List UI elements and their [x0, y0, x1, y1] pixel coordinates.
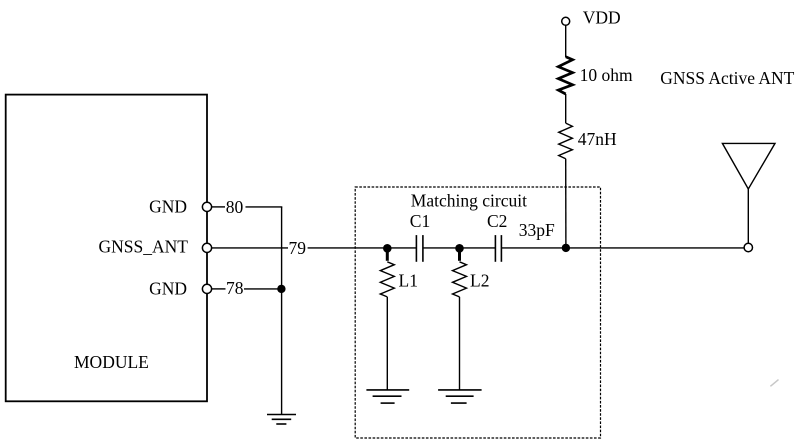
svg-text:GNSS_ANT: GNSS_ANT [99, 237, 189, 257]
wire pin78 to label [212, 288, 226, 290]
svg-text:L2: L2 [470, 271, 489, 291]
VDD terminal circle [562, 17, 570, 25]
svg-text:MODULE: MODULE [74, 352, 149, 372]
svg-text:C2: C2 [487, 211, 507, 231]
pin 78 terminal circle [202, 284, 211, 293]
svg-text:33pF: 33pF [519, 220, 555, 240]
wire C2 to antenna terminal [501, 247, 744, 249]
node junction dot B (L2 tap) [455, 244, 464, 253]
junction dot pin78/gnd bus [277, 285, 285, 293]
svg-text:VDD: VDD [583, 8, 621, 28]
wire pin79 to label 79 [212, 247, 288, 249]
node junction dot A (L1 tap) [383, 244, 392, 253]
ground symbol under L2 [438, 390, 482, 403]
wire label 78 to junction [244, 288, 282, 290]
pin 80 terminal circle [202, 202, 211, 211]
wire label 80 to gnd bus corner [246, 206, 283, 208]
capacitor C2 right plate [500, 235, 502, 262]
inductor L2 zigzag [453, 262, 467, 297]
inductor L1 zigzag [380, 262, 394, 297]
inductor L3 47nH zigzag [559, 123, 573, 159]
wire L2 to ground [459, 297, 461, 390]
module U1 body [6, 95, 207, 402]
pin 79 terminal circle [202, 243, 211, 252]
node junction dot C (bias tee) [562, 244, 570, 252]
svg-text:GNSS Active ANT: GNSS Active ANT [660, 68, 794, 88]
resistor R1 10 ohm zigzag (bold) [558, 57, 572, 94]
capacitor C2 left plate [494, 235, 496, 262]
wire antenna to terminal [747, 189, 749, 243]
svg-text:80: 80 [226, 197, 244, 217]
antenna ANT1 triangle [722, 143, 775, 189]
svg-text:C1: C1 [410, 211, 430, 231]
capacitor C1 left plate [415, 235, 417, 262]
wire gnd bus vertical [281, 207, 283, 415]
capacitor C1 right plate [422, 235, 424, 262]
wire pin80 to label [212, 206, 225, 208]
wire L3 to node C [565, 159, 567, 248]
wire C1 to node B [423, 247, 496, 249]
wire R1 to L3 [565, 94, 567, 123]
svg-text:78: 78 [226, 278, 244, 298]
node A stub to L1 [386, 248, 389, 260]
antenna terminal circle [744, 243, 752, 251]
node B stub to L2 [458, 248, 461, 260]
svg-text:L1: L1 [399, 271, 418, 291]
svg-text:79: 79 [289, 238, 307, 258]
svg-text:Matching circuit: Matching circuit [411, 191, 527, 211]
matching circuit dashed box [355, 187, 600, 438]
stray mark artifact [770, 380, 778, 387]
wire L1 to ground [386, 297, 388, 390]
svg-text:47nH: 47nH [578, 129, 617, 149]
ground symbol under L1 [366, 390, 409, 403]
svg-text:10 ohm: 10 ohm [580, 65, 633, 85]
svg-text:GND: GND [149, 278, 187, 298]
svg-text:GND: GND [149, 196, 187, 216]
ground symbol (gnd bus) [267, 415, 296, 425]
wire VDD to resistor R1 [565, 26, 567, 58]
wire label 79 to C1 [308, 247, 417, 249]
